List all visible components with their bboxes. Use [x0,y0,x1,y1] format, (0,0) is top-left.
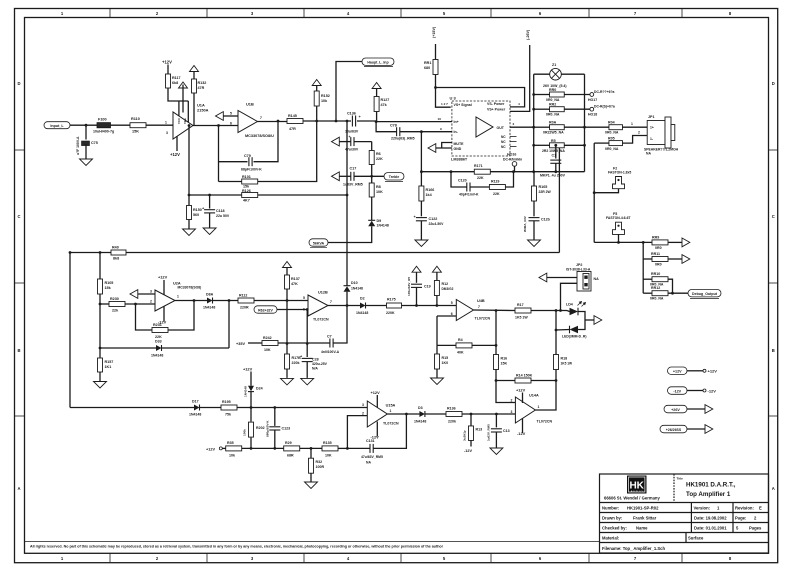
title block [600,474,769,553]
resistor R105 [98,279,103,294]
wire to R17B [286,344,288,355]
svg-text:4n0/100V-A: 4n0/100V-A [321,350,340,354]
svg-text:R202: R202 [256,426,265,430]
svg-text:Haupt_L_Inp: Haupt_L_Inp [367,61,388,65]
off-page arrow U2A pin3 [130,290,138,299]
power arrow R12 [432,266,441,272]
svg-text:6k8: 6k8 [172,81,178,85]
svg-text:1: 1 [177,295,179,299]
resistor RR0 [550,92,565,97]
svg-text:JP1: JP1 [648,115,655,119]
svg-text:75k: 75k [225,413,231,417]
svg-text:R166: R166 [426,188,435,192]
resistor R202 [249,422,254,437]
wire arrow to R127 [376,89,378,97]
wire to RR10 [643,278,652,280]
wire to R15 [436,345,438,354]
wire R117 supply jog [168,88,188,101]
svg-text:560: 560 [193,213,199,217]
svg-text:D24: D24 [256,387,263,391]
power arrow +12V R132 [190,66,199,72]
junction C123 bottom [273,447,276,450]
wire riser to D33 row [228,301,230,349]
svg-text:VS- Power: VS- Power [487,102,505,106]
wire R17 out [531,310,567,312]
diode D9 [368,220,375,226]
svg-text:MC33078/SO8/U: MC33078/SO8/U [245,134,274,138]
junction R202 bottom [250,447,253,450]
wire to C123 [274,408,276,426]
net label Debug_Output [688,290,721,297]
wire +12V to D24 [250,372,252,386]
svg-text:DM3/G2: DM3/G2 [442,287,454,291]
wire arrow to R12 [436,272,438,280]
resistor RR2 [550,107,565,112]
off-page arrow LD4 [594,316,602,325]
svg-text:+12V: +12V [673,370,682,374]
wire to Haupt_L_Inp label [336,62,362,122]
junction R4 output [495,344,498,347]
grid tick [681,553,683,562]
resistor R166 [419,186,424,201]
capacitor C122 [416,218,427,221]
svg-text:2150A: 2150A [197,108,209,113]
wire HO16 stem [514,166,516,172]
off-page arrow RR11 [682,255,690,264]
capacitor C13 [491,429,502,432]
wire D33 row right [162,347,230,349]
grid tick [400,553,402,562]
wire to R157 [99,348,101,358]
svg-text:15K: 15K [132,130,139,134]
svg-text:All rights reserved. No part o: All rights reserved. No part of this sch… [30,545,444,549]
svg-text:C7: C7 [327,334,332,338]
svg-text:22u 50V: 22u 50V [216,214,230,218]
wire RR12 to Debug_Output [668,292,688,294]
wire RR2 to HO18 [564,108,590,110]
wire +12V to R117 [167,65,169,75]
svg-text:47R: 47R [198,86,205,90]
junction feedback row left [420,170,423,173]
capacitor C121 [529,218,540,221]
junction RC branch right [512,170,515,173]
wire R135 to feedback node [338,447,347,449]
junction C1 bottom [554,170,557,173]
svg-text:Z1: Z1 [552,63,556,67]
svg-text:HK: HK [629,480,644,492]
wire to RR2 [534,108,550,110]
diode D17 [194,405,200,411]
resistor R126 [242,193,258,198]
net label Treble [384,173,404,180]
svg-text:1N4148: 1N4148 [356,311,368,315]
svg-text:MC33078(SO8): MC33078(SO8) [178,286,202,290]
LED LD4 upper [570,308,579,316]
svg-text:R4: R4 [458,338,463,342]
faston tab F5 [613,222,625,234]
wire legend 3 [687,408,705,410]
wire R152 to row [316,106,318,121]
wire to R18 [555,311,557,355]
svg-text:R117: R117 [172,76,181,80]
power arrow R152 [312,80,321,86]
svg-text:10: 10 [438,117,442,121]
grid tick [14,282,24,284]
svg-text:4K7: 4K7 [243,198,250,202]
svg-text:R171: R171 [474,164,483,168]
svg-text:3u3H1y: 3u3H1y [463,430,467,441]
svg-text:DC-R??+6?a: DC-R??+6?a [594,90,615,94]
junction C13 [495,413,498,416]
svg-text:68R: 68R [287,453,294,457]
svg-text:10K: 10K [264,348,271,352]
wire R127 to In+ row [376,112,378,122]
svg-text:100u/63V_R5: 100u/63V_R5 [407,277,411,296]
svg-text:1K0: 1K0 [442,361,449,365]
svg-text:HK1901-SP-R02: HK1901-SP-R02 [627,506,659,511]
wire D10 to output row [346,292,348,306]
grid tick [681,8,683,18]
junction bus2 R5 [583,144,586,147]
wire to R5 [534,144,550,146]
ground C122 [415,240,428,247]
svg-text:+12V: +12V [708,369,718,374]
grid tick [769,282,779,284]
wire arrow to R152 [316,86,318,92]
wire arrow to C17 [339,175,351,177]
svg-text:D: D [17,81,20,86]
IC U3 LM3886T body [452,101,510,156]
svg-text:TL072CN: TL072CN [475,316,491,320]
svg-text:2R2 10W5_NA: 2R2 10W5_NA [542,149,565,153]
wire U15A out to D3 [387,413,419,415]
svg-text:E: E [759,506,762,511]
resistor R145 [287,119,303,124]
resistor R101 [242,179,258,184]
legend net -12V [668,387,688,395]
svg-text:7: 7 [260,116,262,120]
svg-text:B: B [772,348,775,353]
svg-text:47u/63V_RM5: 47u/63V_RM5 [361,455,383,459]
wire C121 to ground [533,221,535,240]
diode D2 [360,303,366,309]
wire U2A feedback down [136,304,153,330]
wire D17 to R195 [200,407,222,409]
svg-text:NC: NC [501,140,506,144]
svg-text:R135: R135 [323,441,332,445]
wire to R202 [250,408,252,422]
svg-text:1K5 1W: 1K5 1W [515,315,528,319]
wire long feedback bus [70,252,559,254]
wire R231 to output [168,301,194,331]
resistor R04 [609,125,623,130]
op-amp U2B [308,295,328,316]
junction C79 top [277,120,280,123]
svg-text:N/A: N/A [312,366,318,370]
svg-text:0R0_NA: 0R0_NA [605,147,619,151]
wire C131 to output [373,414,406,448]
net label 56KVA [309,239,328,246]
svg-text:HO17: HO17 [588,98,597,102]
svg-text:220k: 220k [292,361,300,365]
wire C19 to row [416,287,418,305]
resistor R12 [434,281,439,296]
wire riser R16 top [495,311,497,346]
wire bottom row left [70,407,194,409]
wire OUT to R0A [534,126,550,128]
svg-text:1: 1 [538,405,540,409]
wire to F2 [594,189,618,193]
resistor R0A [550,125,565,130]
diode D24 [248,386,254,392]
svg-text:5: 5 [451,301,453,305]
wire output bus2 [584,74,586,172]
capacitor C1 [550,160,561,163]
wire R136 to U14A pin3 [462,413,515,415]
corner long bus [69,251,72,254]
copyright strip rule [24,541,600,543]
resistor RR12 [652,291,668,296]
wire to R126 [189,194,242,196]
junction R18 top [555,309,558,312]
svg-text:RR0: RR0 [549,88,556,92]
svg-text:47k: 47k [381,103,388,107]
grid tick [14,149,24,151]
op-amp symbol inside U3 [476,117,493,137]
svg-text:1K1: 1K1 [105,365,112,369]
svg-text:R5: R5 [551,139,556,143]
svg-text:DC-R/ImIkIn: DC-R/ImIkIn [503,157,522,161]
resistor R165 [532,186,537,201]
inductor L100 [97,123,111,128]
svg-text:R242: R242 [263,336,272,340]
wire return row [594,241,652,243]
resistor R119 [489,185,505,190]
capacitor C19 [411,284,422,287]
svg-text:NA: NA [594,277,600,281]
svg-text:10k: 10k [321,99,328,103]
svg-text:D33: D33 [155,340,162,344]
svg-text:F5: F5 [613,212,617,216]
wire arrow to R132 [193,72,195,80]
ground input filter [80,159,93,166]
wire output bus left [533,74,535,172]
wire C28 to ground [306,362,308,378]
junction R32 [310,447,313,450]
svg-text:HO18: HO18 [588,113,597,117]
wire to C118 [209,195,211,209]
resistor R32 [309,458,314,473]
svg-text:22K: 22K [493,192,500,196]
wire U2B out to D2 [328,305,360,307]
svg-text:WIMA_63V: WIMA_63V [523,215,527,232]
wire R145 to C126 [303,120,351,122]
wire R29 to R195b [300,447,322,449]
svg-text:RR12: RR12 [651,286,660,290]
wire R17B to ground [286,369,288,378]
junction C1 top [554,144,557,147]
svg-text:A U D I O: A U D I O [631,490,644,493]
wire to C28 [306,344,308,358]
svg-text:U4B: U4B [477,299,485,303]
ground C121 [528,240,541,247]
wire signal bus down [346,122,348,286]
junction bus2 OUT [583,126,586,129]
capacitor C115 [351,137,354,146]
wire supply rail to VS-Power [436,88,525,107]
wire to R6 [371,142,373,151]
junction RR riser [642,241,645,244]
svg-text:22k: 22k [112,309,119,313]
svg-text:RR1: RR1 [424,61,431,65]
junction OUT row [532,126,535,129]
junction R5 row [532,144,535,147]
grid tick [109,8,111,18]
svg-text:C13: C13 [503,429,510,433]
svg-text:40pF/1mV-K: 40pF/1mV-K [459,192,479,196]
wire R18 to row [555,370,557,381]
junction R126 row [188,194,191,197]
capacitor C7 [330,339,333,348]
grid tick [490,553,492,562]
resistor R127 [374,97,379,112]
svg-text:R152: R152 [321,94,330,98]
grid tick [400,8,402,18]
wire feedback row [421,171,584,173]
svg-text:1u63V_RM5: 1u63V_RM5 [343,183,363,187]
junction C118 [208,194,211,197]
wire to R230 [100,303,109,305]
svg-text:F100: F100 [98,118,107,122]
power arrow R127 [372,83,381,89]
wire right feedback riser [558,145,560,252]
wire C1 to feedback row [555,163,557,171]
svg-text:Input_L: Input_L [50,124,64,128]
resistor R157 [98,358,103,372]
svg-text:D17: D17 [192,400,199,404]
wire U1A out to U1B in [193,125,238,127]
grid tick [588,553,590,562]
wire D24 to row [250,392,252,408]
svg-text:C79: C79 [244,154,251,158]
svg-text:C123: C123 [282,427,291,431]
junction C123 [273,406,276,409]
wire to R14 [496,380,515,382]
svg-text:+35V: +35V [236,342,245,346]
wire to R32 [310,448,312,458]
wire R35 to R29 [242,447,284,449]
svg-text:R175: R175 [387,297,396,301]
wire R4 to output riser [472,344,496,346]
svg-text:3: 3 [513,122,515,126]
wire arrow to C19 [416,272,418,283]
legend circle -12V [703,389,706,392]
capacitor C131 [370,444,373,453]
net label Haupt_L_Inp [362,58,394,65]
wire R157 to ground [99,372,101,381]
wire C118 to ground [209,213,211,228]
svg-text:1u63V_RM5: 1u63V_RM5 [487,424,491,441]
svg-text:C19: C19 [424,284,431,288]
capacitor C79 [249,157,252,166]
svg-text:Name: Name [636,526,648,531]
resistor R17B [285,354,290,369]
svg-text:C120: C120 [458,179,467,183]
wire R15 to ground [436,369,438,378]
wire to R105 [99,253,101,280]
svg-text:1: 1 [390,409,392,413]
svg-text:+12V: +12V [206,448,215,452]
ground C118 [203,228,216,235]
wire to C79 [219,161,248,163]
svg-text:1+: 1+ [650,126,654,130]
wire to R8 [371,176,373,183]
resistor R136 [446,412,462,417]
svg-text:R16: R16 [501,357,508,361]
op-amp U14A [515,397,535,423]
wire to R13 [470,414,472,426]
resistor R175 [387,303,402,308]
svg-text:R132: R132 [198,81,207,85]
svg-text:3: 3 [511,410,513,414]
svg-text:VCC: VCC [177,117,181,124]
wire to LD4 cathode [556,329,570,332]
svg-text:2: 2 [638,131,640,135]
resistor R135 [322,446,338,451]
wire to R166 [420,172,422,186]
wire to C75 [85,125,87,139]
svg-text:MKP1_4u 250V: MKP1_4u 250V [540,173,566,177]
grid tick [14,415,24,417]
junction LD4 lower [555,329,558,332]
svg-text:R15: R15 [442,356,449,360]
svg-text:U14A: U14A [529,393,539,397]
wire U3 OUT [510,126,534,128]
wire R202 to lower row [250,438,252,449]
svg-text:R127: R127 [381,98,390,102]
junction U2A feedback [134,303,137,306]
svg-text:1 2 7: 1 2 7 [441,102,448,106]
wire stub U1A top a [178,101,180,116]
svg-text:2: 2 [511,398,513,402]
junction debug node [671,292,674,295]
wire D2 to R175 [366,305,387,307]
svg-text:Number:: Number: [602,506,619,511]
junction R14 left [495,379,498,382]
svg-text:22K: 22K [477,176,484,180]
svg-text:7: 7 [478,305,480,309]
wire C122 to ground [420,221,422,240]
wire +12V stub U2A [163,280,165,295]
legend arrow +26/26SS [705,425,713,434]
resistor R17 [515,308,531,313]
svg-text:R112: R112 [239,293,247,297]
junction RR0 row [532,93,535,96]
off-page arrow RR9 [682,238,690,247]
wire -26V to VS+Power [510,45,530,111]
svg-text:68pF/100V-K: 68pF/100V-K [241,168,262,172]
svg-text:Title: Title [677,477,684,481]
wire to R101 [219,181,242,183]
svg-text:VEE: VEE [183,118,187,124]
resistor R4 [456,343,472,348]
svg-text:LD4: LD4 [566,303,573,307]
junction R105 top [99,251,102,254]
wire R150 to ground [188,220,190,229]
svg-text:0R0_NA: 0R0_NA [650,297,664,301]
svg-text:-12V: -12V [517,431,526,436]
speaker connector JP1 [647,117,675,148]
